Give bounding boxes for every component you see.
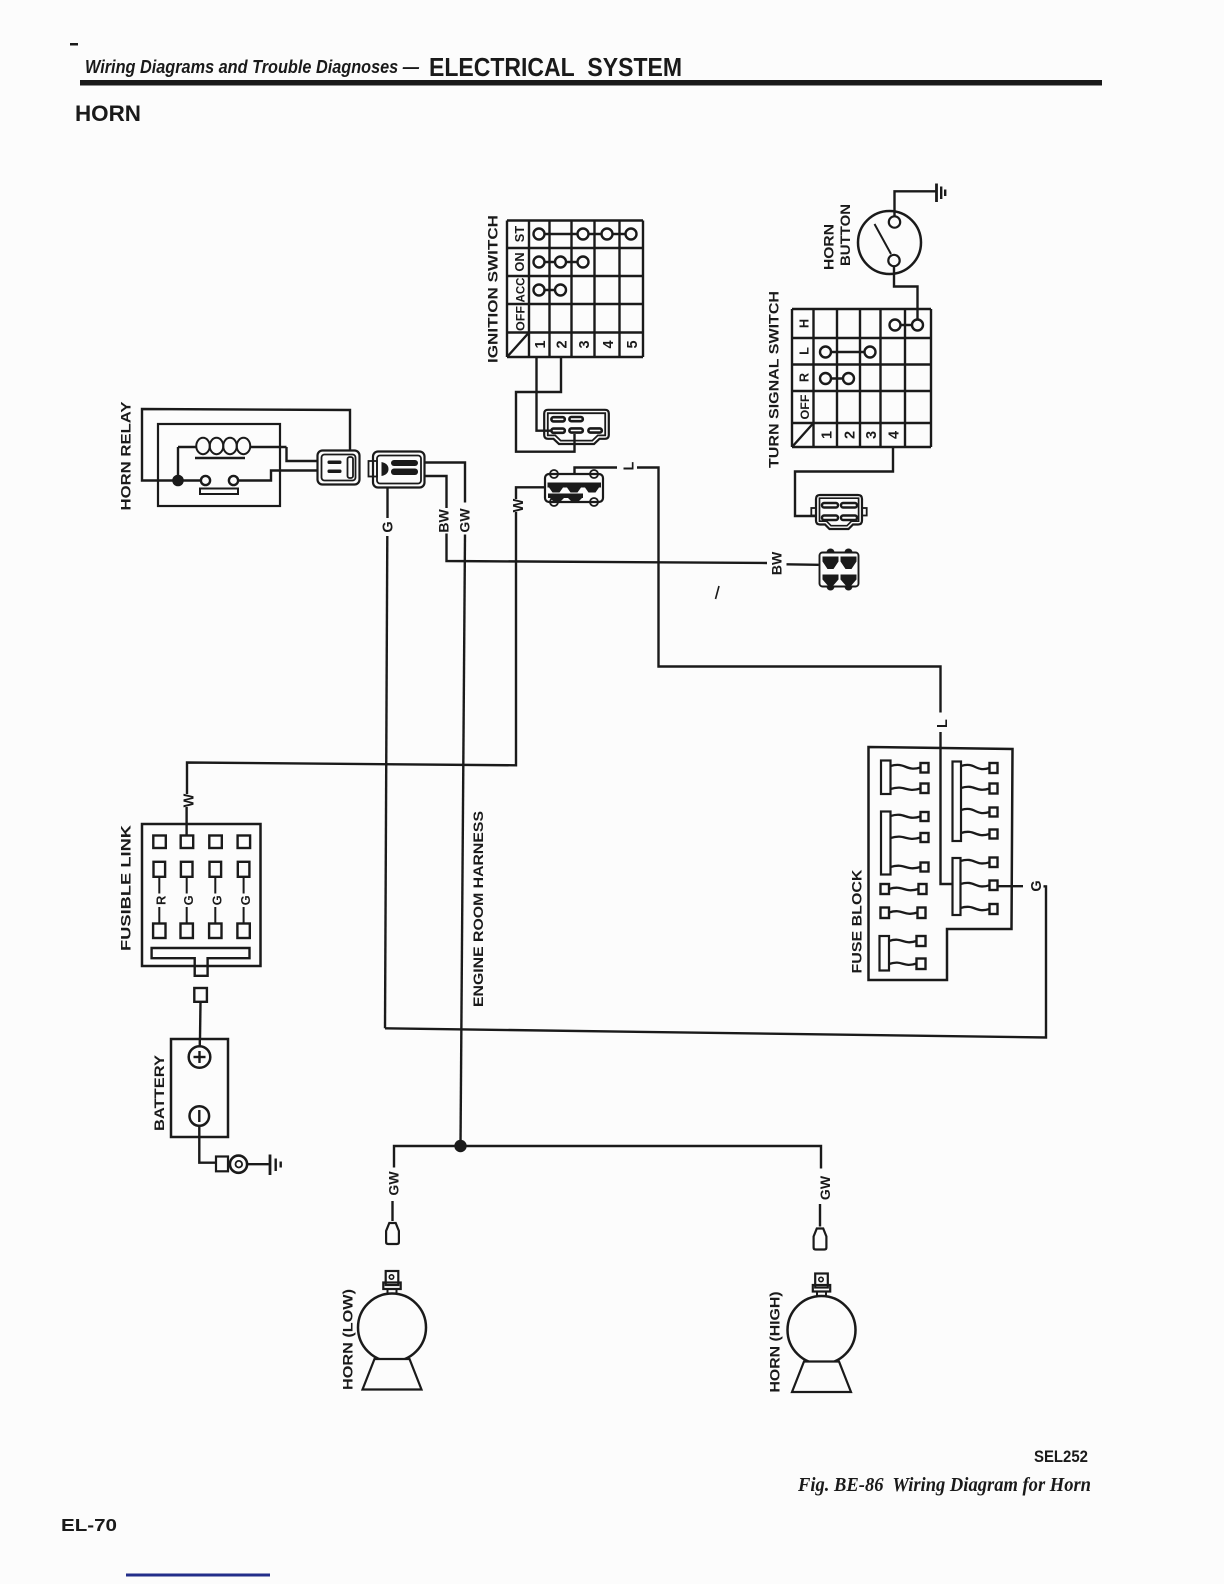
junction dot relay bbox=[172, 475, 184, 487]
fusible link top terminals bbox=[153, 836, 166, 849]
svg-text:Fig. BE-86 Wiring Diagram for: Fig. BE-86 Wiring Diagram for Horn bbox=[797, 1474, 1091, 1496]
svg-text:GW: GW bbox=[457, 508, 473, 533]
relay connector C1 pins bbox=[328, 461, 342, 465]
relay core bar bbox=[195, 457, 245, 459]
wire battery negative to ground bbox=[199, 1126, 216, 1163]
svg-text:ACC: ACC bbox=[514, 277, 528, 302]
svg-text:1: 1 bbox=[533, 340, 549, 348]
connector engine room harness 3-pin bbox=[545, 474, 603, 502]
relay contact wires bbox=[183, 479, 201, 481]
svg-text:G: G bbox=[181, 895, 196, 905]
connector turn signal 4-pin bbox=[816, 495, 862, 529]
battery negative terminal bbox=[190, 1106, 210, 1126]
svg-text:G: G bbox=[210, 895, 225, 905]
relay coil bbox=[178, 446, 197, 448]
svg-text:3: 3 bbox=[864, 431, 880, 439]
svg-text:1: 1 bbox=[820, 431, 836, 439]
svg-text:H: H bbox=[797, 319, 812, 328]
turn signal contacts H row bbox=[895, 324, 918, 326]
svg-text:GW: GW bbox=[817, 1175, 833, 1200]
horn button circle bbox=[858, 211, 921, 274]
relay contact points bbox=[201, 476, 210, 485]
wire L (blue) to fuse block bbox=[575, 468, 618, 475]
page header rule mark bbox=[70, 43, 78, 46]
wire ignition terminal 1 bbox=[537, 357, 552, 431]
svg-text:ON: ON bbox=[512, 252, 527, 271]
svg-text:BATTERY: BATTERY bbox=[152, 1055, 167, 1131]
svg-text:BW: BW bbox=[436, 509, 452, 533]
svg-text:HORN (LOW): HORN (LOW) bbox=[341, 1289, 356, 1390]
header rule bbox=[80, 80, 1102, 86]
wire G from relay connector bbox=[386, 488, 388, 519]
wire G from fuse block bbox=[998, 885, 1024, 887]
horn button contacts bbox=[889, 216, 900, 227]
svg-text:HORN: HORN bbox=[75, 101, 141, 126]
fusible link lower terminals bbox=[153, 924, 165, 939]
svg-text:Wiring Diagrams and Trouble Di: Wiring Diagrams and Trouble Diagnoses — bbox=[85, 56, 419, 77]
ground at horn button bbox=[935, 184, 938, 203]
fuse block fuse 6 bbox=[953, 762, 962, 842]
svg-text:EL-70: EL-70 bbox=[61, 1515, 117, 1535]
horn (high) bbox=[815, 1274, 828, 1288]
svg-text:2: 2 bbox=[555, 340, 571, 348]
wire GW to horn low bbox=[394, 1146, 461, 1168]
relay connector C2 pins bbox=[382, 462, 389, 476]
svg-text:2: 2 bbox=[843, 431, 859, 439]
horn relay box bbox=[158, 424, 280, 506]
svg-text:BUTTON: BUTTON bbox=[838, 204, 853, 266]
svg-text:L: L bbox=[935, 719, 951, 728]
svg-text:IGNITION SWITCH: IGNITION SWITCH bbox=[486, 215, 501, 363]
ignition connector pin slots bbox=[551, 417, 564, 421]
horn (low) bbox=[386, 1271, 399, 1285]
ground at battery bbox=[269, 1155, 272, 1176]
fuse block fuse 2 bbox=[881, 812, 891, 875]
fusible link second terminals bbox=[154, 862, 166, 877]
ignition switch contacts ON row bbox=[539, 261, 583, 263]
connector relay C2 bbox=[373, 452, 425, 488]
wire turn signal terminal 4 to connector bbox=[795, 447, 893, 516]
fuse block fuse 4 bbox=[881, 908, 890, 919]
svg-text:HORN: HORN bbox=[822, 224, 837, 270]
ignition switch contacts ST row bbox=[539, 233, 631, 235]
wire fusible link to battery bbox=[199, 1002, 202, 1039]
wire ignition terminal 2 bbox=[516, 357, 575, 452]
wire BW from relay connector bbox=[425, 476, 447, 508]
harness connector pins lower row bbox=[548, 494, 583, 499]
svg-text:G: G bbox=[381, 521, 397, 532]
svg-text:4: 4 bbox=[601, 340, 617, 348]
wire GW to horn high bbox=[461, 1146, 822, 1169]
wire horn button to ground bbox=[895, 191, 936, 216]
fuse block fuse 7 bbox=[953, 858, 961, 915]
svg-text:FUSE BLOCK: FUSE BLOCK bbox=[850, 869, 865, 973]
svg-text:SEL252: SEL252 bbox=[1034, 1448, 1088, 1466]
relay armature bar bbox=[200, 489, 238, 495]
bullet connector horn high bbox=[814, 1229, 827, 1250]
svg-text:3: 3 bbox=[577, 340, 593, 348]
turn signal switch table grid bbox=[792, 309, 931, 447]
fuse block outline bbox=[869, 747, 1013, 980]
fuse block fuse 1 bbox=[881, 761, 891, 795]
svg-text:OFF: OFF bbox=[514, 306, 528, 331]
turn signal connector side tabs bbox=[811, 508, 816, 516]
battery box bbox=[171, 1039, 228, 1137]
scan artifact stray mark bbox=[716, 586, 720, 599]
battery ground cable lug bbox=[216, 1157, 228, 1172]
svg-text:TURN SIGNAL SWITCH: TURN SIGNAL SWITCH bbox=[767, 291, 782, 468]
svg-text:5: 5 bbox=[625, 340, 641, 348]
svg-text:4: 4 bbox=[887, 431, 903, 439]
svg-text:HORN (HIGH): HORN (HIGH) bbox=[768, 1292, 783, 1393]
svg-text:BW: BW bbox=[769, 551, 785, 575]
svg-text:ELECTRICAL SYSTEM: ELECTRICAL SYSTEM bbox=[429, 52, 682, 82]
blue scan line bbox=[126, 1574, 270, 1577]
svg-text:FUSIBLE LINK: FUSIBLE LINK bbox=[119, 825, 134, 951]
svg-text:W: W bbox=[511, 498, 527, 512]
fusible link box bbox=[142, 824, 261, 966]
wire GW from relay connector bbox=[425, 463, 466, 503]
BW connector pins bbox=[827, 549, 835, 553]
connector relay C1 bbox=[318, 451, 360, 485]
harness connector pins upper row bbox=[548, 483, 602, 488]
svg-text:OFF: OFF bbox=[798, 395, 812, 420]
svg-text:L: L bbox=[622, 461, 638, 470]
svg-text:ST: ST bbox=[512, 226, 527, 243]
battery positive terminal bbox=[199, 1039, 201, 1047]
wire horn button to turn signal switch bbox=[894, 266, 918, 319]
fusible link output terminal bbox=[194, 988, 207, 1002]
horn button switch lever bbox=[875, 224, 892, 254]
fuse block fuse 5 bbox=[880, 936, 890, 971]
svg-text:GW: GW bbox=[386, 1171, 402, 1196]
svg-text:ENGINE ROOM HARNESS: ENGINE ROOM HARNESS bbox=[471, 811, 486, 1007]
bullet connector horn low bbox=[386, 1223, 399, 1244]
fusible link bus bar T bbox=[152, 948, 250, 976]
svg-text:L: L bbox=[797, 347, 812, 355]
junction dot GW bbox=[454, 1140, 466, 1152]
svg-text:HORN RELAY: HORN RELAY bbox=[119, 402, 134, 511]
svg-text:W: W bbox=[182, 793, 198, 807]
ignition switch contacts ACC row bbox=[539, 289, 561, 291]
turn signal contacts R row bbox=[826, 377, 849, 379]
svg-text:G: G bbox=[1029, 880, 1045, 891]
fuse block fuse 3 bbox=[881, 884, 890, 894]
turn signal connector pin slots bbox=[822, 503, 838, 508]
svg-text:R: R bbox=[154, 895, 169, 905]
connector BW 4-pin bbox=[820, 553, 859, 587]
ignition switch table grid bbox=[507, 221, 643, 358]
svg-text:G: G bbox=[238, 895, 253, 905]
wire coil to connector pin bbox=[287, 447, 318, 461]
turn signal contacts L row bbox=[826, 351, 871, 353]
connector ignition switch 5-pin bbox=[544, 410, 609, 444]
wire relay outer loop bbox=[142, 409, 350, 481]
wire W (white) ignition feed bbox=[516, 487, 545, 499]
wire coil to junction bbox=[177, 447, 179, 481]
svg-text:R: R bbox=[797, 373, 812, 382]
